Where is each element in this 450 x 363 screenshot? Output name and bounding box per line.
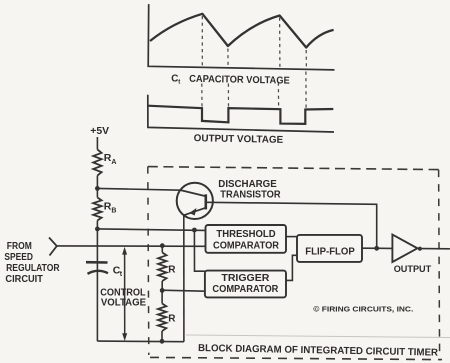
svg-text:+5V: +5V	[90, 126, 109, 137]
svg-text:SPEED: SPEED	[4, 252, 33, 263]
svg-text:VOLTAGE: VOLTAGE	[101, 297, 146, 308]
svg-text:FLIP-FLOP: FLIP-FLOP	[305, 245, 355, 257]
svg-text:OUTPUT: OUTPUT	[394, 264, 432, 275]
svg-text:A: A	[111, 159, 116, 166]
svg-text:R: R	[168, 265, 176, 276]
svg-text:B: B	[111, 207, 116, 214]
svg-text:REGULATOR: REGULATOR	[6, 263, 60, 274]
svg-text:THRESHOLD: THRESHOLD	[216, 228, 276, 240]
svg-text:OUTPUT VOLTAGE: OUTPUT VOLTAGE	[194, 133, 284, 146]
svg-text:© FIRING CIRCUITS, INC.: © FIRING CIRCUITS, INC.	[313, 304, 413, 313]
svg-text:COMPARATOR: COMPARATOR	[212, 283, 278, 295]
svg-text:CAPACITOR VOLTAGE: CAPACITOR VOLTAGE	[189, 74, 290, 87]
svg-text:FROM: FROM	[7, 241, 32, 252]
svg-text:R: R	[168, 313, 176, 324]
svg-text:CIRCUIT: CIRCUIT	[5, 274, 43, 285]
svg-text:TRIGGER: TRIGGER	[221, 272, 269, 284]
svg-text:COMPARATOR: COMPARATOR	[213, 239, 279, 251]
svg-text:TRANSISTOR: TRANSISTOR	[220, 189, 281, 201]
